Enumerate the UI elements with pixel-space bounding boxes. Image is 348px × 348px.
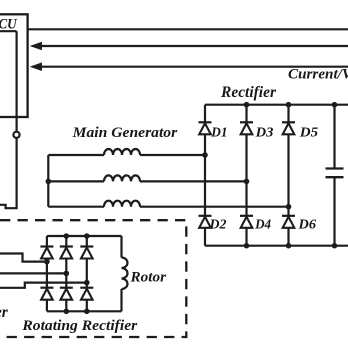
diode D3 <box>240 122 253 134</box>
rotating rectifier top rail <box>47 235 122 237</box>
wire inside ECU below label <box>0 30 17 32</box>
diode D4 <box>240 216 253 228</box>
svg-text:Main Generator: Main Generator <box>72 125 178 141</box>
rotating diode upper 2 <box>60 247 73 259</box>
winding L2 phase B <box>104 175 140 181</box>
rectifier bottom rail <box>205 245 348 247</box>
rotating rectifier leg 2 wire <box>65 236 67 311</box>
junction bottom rail capacitor <box>332 243 338 249</box>
svg-text:Rectifier: Rectifier <box>220 84 277 101</box>
terminal circle (slip ring) <box>13 132 19 138</box>
junction top rail capacitor <box>332 102 338 108</box>
junction phase B / leg2 <box>244 179 250 185</box>
junction rr bottom rail leg2 <box>64 309 70 315</box>
rotating diode upper 3 <box>80 247 93 259</box>
junction exciter a leg1 <box>44 259 50 265</box>
capacitor C1 top lead <box>333 105 335 169</box>
junction exciter b leg2 <box>64 271 70 277</box>
rotating diode lower 1 <box>40 288 53 300</box>
junction exciter c leg3 <box>84 280 90 286</box>
rectifier leg 2 wire <box>245 105 247 246</box>
junction rr top rail leg2 <box>64 233 70 239</box>
svg-text:D1: D1 <box>210 124 227 139</box>
junction top rail leg2 <box>244 102 250 108</box>
phase B wire left <box>48 180 104 182</box>
svg-text:Rotor: Rotor <box>129 270 166 286</box>
junction bottom rail leg3 <box>286 243 292 249</box>
signal arrow 2 head <box>30 62 42 71</box>
capacitor C1 plates <box>326 169 344 178</box>
rotating rectifier leg 3 wire <box>86 236 88 311</box>
junction top rail leg3 <box>286 102 292 108</box>
svg-text:Current/V: Current/V <box>288 66 348 82</box>
diode D5 <box>282 122 295 134</box>
junction phase C / leg3 <box>286 204 292 210</box>
phase C wire to rectifier <box>140 206 289 208</box>
svg-text:D3: D3 <box>255 124 274 139</box>
svg-text:D6: D6 <box>297 217 316 232</box>
rotor branch bottom wire <box>120 289 122 311</box>
exciter phase wire c (jogged) <box>0 283 87 288</box>
rectifier leg 3 wire <box>287 105 289 246</box>
junction bottom rail leg2 <box>244 243 250 249</box>
svg-text:Exciter: Exciter <box>0 304 9 321</box>
signal arrow 1 into ECU (shaft) <box>40 45 348 47</box>
exciter phase wire b <box>0 272 66 274</box>
rectifier leg 1 wire <box>204 105 206 246</box>
junction rr bottom rail leg3 <box>84 309 90 315</box>
diode D6 <box>282 216 295 228</box>
generator neutral bus <box>47 155 49 207</box>
exciter phase wire a (jogged) <box>0 254 47 262</box>
ECU box U1 (cut off at left edge) <box>0 14 28 117</box>
phase A wire to rectifier <box>140 154 205 156</box>
rotating diode lower 2 <box>60 288 73 300</box>
svg-text:D4: D4 <box>254 217 271 232</box>
wire terminal down to exciter field (jogged) <box>0 138 17 208</box>
diode D1 <box>199 122 212 134</box>
signal arrow 1 head <box>30 42 42 51</box>
wire ECU output to right edge <box>28 28 348 30</box>
rectifier top rail <box>205 104 348 106</box>
rotor field winding <box>122 258 128 290</box>
phase C wire left <box>48 206 104 208</box>
wire ECU down to terminal <box>16 31 18 131</box>
capacitor C1 bottom lead <box>333 177 335 246</box>
phase A wire left <box>48 154 104 156</box>
rotating diode lower 3 <box>80 288 93 300</box>
svg-text:Rotating Rectifier: Rotating Rectifier <box>21 318 137 334</box>
rotating diode upper 1 <box>40 247 53 259</box>
junction phase A / leg1 <box>202 152 208 158</box>
junction rr top rail leg3 <box>84 233 90 239</box>
winding L1 phase A <box>104 149 140 155</box>
svg-text:D5: D5 <box>299 124 319 139</box>
winding L3 phase C <box>104 201 140 207</box>
rotating rectifier leg 1 wire <box>46 236 48 311</box>
diode D2 <box>199 216 212 228</box>
phase B wire to rectifier <box>140 180 247 182</box>
svg-text:D2: D2 <box>208 217 226 232</box>
signal arrow 2 into ECU (shaft) <box>40 66 348 68</box>
junction neutral-phase B <box>46 179 52 185</box>
rotor branch top wire <box>120 236 122 258</box>
rotating assembly dashed enclosure <box>0 220 186 337</box>
rotating rectifier bottom rail <box>47 310 122 312</box>
